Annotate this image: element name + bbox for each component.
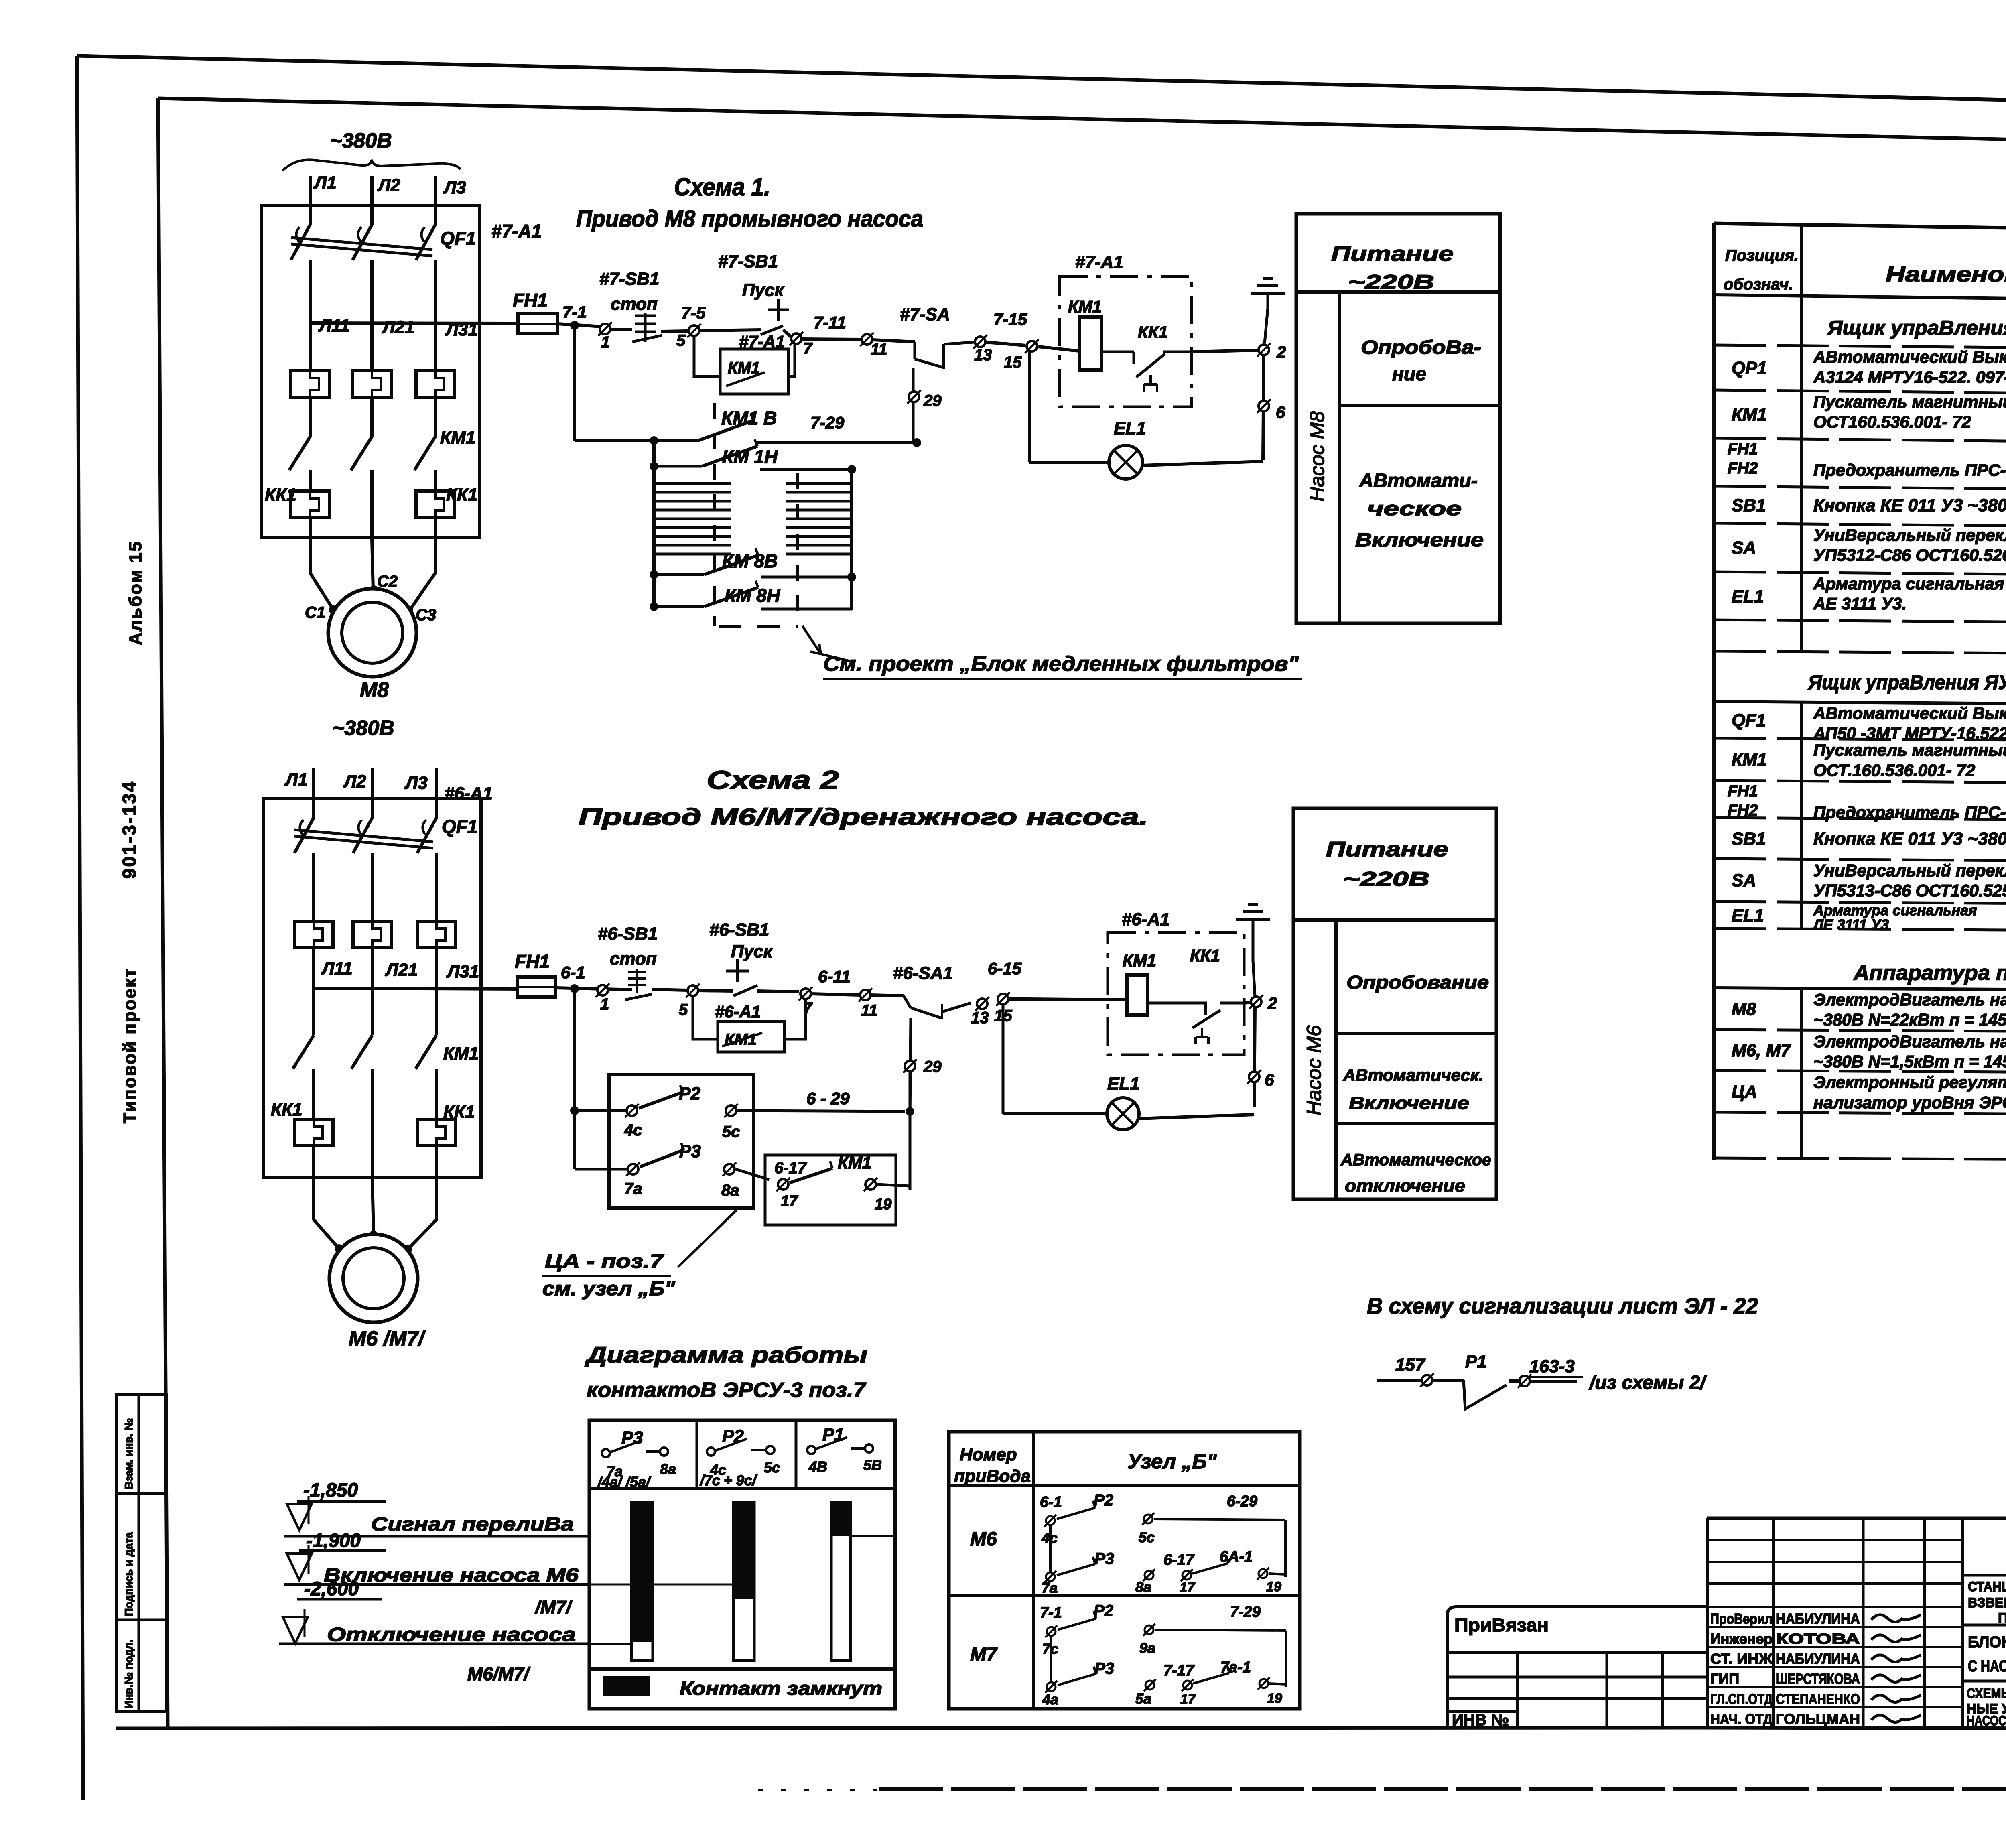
svg-text:Л2: Л2 <box>343 772 366 791</box>
svg-text:7: 7 <box>803 340 813 357</box>
svg-text:5с: 5с <box>1139 1529 1155 1545</box>
svg-text:6-1: 6-1 <box>1040 1494 1062 1511</box>
svg-text:С2: С2 <box>377 573 398 590</box>
svg-text:~220В: ~220В <box>1348 271 1434 293</box>
svg-text:1: 1 <box>601 333 610 351</box>
svg-text:8а: 8а <box>660 1461 676 1477</box>
svg-text:ГИП: ГИП <box>1710 1671 1739 1687</box>
svg-text:М7: М7 <box>970 1644 998 1665</box>
svg-text:5с: 5с <box>764 1459 780 1476</box>
svg-text:НАСОСОМ М8 И ДРЕНАЖНЫМ НАСОСОМ: НАСОСОМ М8 И ДРЕНАЖНЫМ НАСОСОМ М6(7) <box>1967 1713 2006 1728</box>
svg-text:6-29: 6-29 <box>1227 1493 1257 1510</box>
svg-text:КМ1: КМ1 <box>1732 750 1767 770</box>
svg-text:М6 /М7/: М6 /М7/ <box>349 1327 426 1350</box>
svg-text:4а: 4а <box>1042 1691 1058 1708</box>
svg-text:АВтоматический Выключатель: АВтоматический Выключатель <box>1813 347 2006 366</box>
svg-text:КМ 8В: КМ 8В <box>722 550 778 571</box>
svg-text:SВ1: SВ1 <box>1732 496 1766 515</box>
svg-text:~380В N=1,5кВт п = 1450об/м: ~380В N=1,5кВт п = 1450об/мин. <box>1813 1052 2006 1071</box>
svg-text:Аппаратура по месту: Аппаратура по месту <box>1853 961 2006 985</box>
svg-text:АВтоматический Выключатель: АВтоматический Выключатель <box>1813 704 2006 723</box>
svg-text:QР1: QР1 <box>1732 358 1767 378</box>
svg-text:Номер: Номер <box>960 1445 1017 1464</box>
svg-text:СТЕПАНЕНКО: СТЕПАНЕНКО <box>1776 1691 1860 1707</box>
svg-text:КМ1: КМ1 <box>728 359 760 377</box>
svg-text:~380В: ~380В <box>330 129 392 152</box>
svg-text:ПриВязан: ПриВязан <box>1454 1614 1549 1635</box>
svg-text:Подпись и дата: Подпись и дата <box>123 1532 135 1616</box>
svg-text:Питание: Питание <box>1331 242 1454 266</box>
svg-text:7-29: 7-29 <box>1230 1604 1261 1621</box>
svg-text:КОТОВА: КОТОВА <box>1776 1631 1860 1647</box>
svg-text:М6: М6 <box>970 1529 997 1550</box>
svg-text:7а: 7а <box>1042 1580 1058 1596</box>
svg-text:ЕL1: ЕL1 <box>1107 1074 1140 1094</box>
svg-text:См. проект „Блок медленных фил: См. проект „Блок медленных фильтров" <box>823 652 1299 676</box>
svg-text:КМ1: КМ1 <box>440 428 475 447</box>
svg-text:Л3: Л3 <box>404 773 428 793</box>
svg-text:ЦА - поз.7: ЦА - поз.7 <box>545 1251 664 1272</box>
svg-text:4В: 4В <box>808 1458 827 1475</box>
svg-text:Питание: Питание <box>1326 838 1448 861</box>
svg-text:ОСТ160.536.001- 72: ОСТ160.536.001- 72 <box>1813 412 1971 431</box>
svg-text:#7-SB1: #7-SB1 <box>599 269 659 289</box>
svg-text:ЕL1: ЕL1 <box>1114 418 1146 438</box>
svg-text:АЕ 3111 У3.: АЕ 3111 У3. <box>1813 594 1907 613</box>
svg-text:Предохранитель ПРС-6-П 6А: Предохранитель ПРС-6-П 6А <box>1813 461 2006 479</box>
svg-text:Пускатель магнитный ПАЕ-412: Пускатель магнитный ПАЕ-412 <box>1813 392 2006 411</box>
svg-text:13: 13 <box>971 1009 989 1027</box>
svg-text:Л21: Л21 <box>382 317 414 337</box>
svg-text:КМ 1Н: КМ 1Н <box>722 446 778 467</box>
svg-text:Л11: Л11 <box>318 316 350 335</box>
svg-text:7-15: 7-15 <box>993 310 1027 329</box>
svg-text:Ящик упраВления ЯУ6,ЯУ7(ЯУ5116: Ящик упраВления ЯУ6,ЯУ7(ЯУ5116-03А2-Л) <box>1807 671 2006 694</box>
svg-text:В схему сигнализации лист ЭЛ: В схему сигнализации лист ЭЛ - 22 <box>1367 1293 1758 1318</box>
svg-text:Схема 2: Схема 2 <box>707 766 839 794</box>
svg-text:Альбом 15: Альбом 15 <box>126 540 145 645</box>
svg-text:Р3: Р3 <box>1094 1550 1114 1568</box>
svg-text:Электронный регулятор- сиг-: Электронный регулятор- сиг- <box>1813 1073 2006 1092</box>
svg-text:6-11: 6-11 <box>818 967 851 986</box>
svg-text:М8: М8 <box>1732 999 1756 1019</box>
svg-text:5: 5 <box>676 332 686 349</box>
svg-text:~380В: ~380В <box>332 717 394 740</box>
svg-text:6 - 29: 6 - 29 <box>806 1089 850 1108</box>
svg-text:11: 11 <box>871 341 887 358</box>
svg-text:ЭлектродВигатель насоса А2-71-: ЭлектродВигатель насоса А2-71-4 <box>1813 990 2006 1009</box>
svg-text:5с: 5с <box>722 1123 740 1141</box>
svg-text:Р1: Р1 <box>1465 1352 1487 1371</box>
svg-text:НАБИУЛИНА: НАБИУЛИНА <box>1776 1610 1860 1627</box>
svg-text:Насос М8: Насос М8 <box>1306 411 1328 502</box>
svg-text:#6-SB1: #6-SB1 <box>709 920 769 940</box>
svg-text:7-29: 7-29 <box>810 413 845 432</box>
svg-text:А3124 МРТУ16-522. 097-7: А3124 МРТУ16-522. 097-73 <box>1813 368 2006 386</box>
svg-text:Включение насоса М6: Включение насоса М6 <box>324 1565 579 1586</box>
svg-text:М6, М7: М6, М7 <box>1732 1041 1791 1060</box>
svg-text:-2,600: -2,600 <box>304 1578 359 1600</box>
svg-text:Насос М6: Насос М6 <box>1303 1025 1325 1115</box>
svg-text:СТ. ИНЖ: СТ. ИНЖ <box>1710 1651 1773 1667</box>
svg-text:С3: С3 <box>416 606 436 624</box>
svg-text:ЕL1: ЕL1 <box>1732 906 1764 925</box>
svg-text:15: 15 <box>1004 353 1022 371</box>
svg-text:#6-А1: #6-А1 <box>445 784 493 803</box>
svg-text:17: 17 <box>781 1193 798 1210</box>
svg-text:Узел „Б": Узел „Б" <box>1127 1450 1217 1473</box>
svg-text:5В: 5В <box>863 1457 882 1473</box>
svg-text:АВтоматическ.: АВтоматическ. <box>1343 1066 1484 1084</box>
svg-text:7-1: 7-1 <box>1040 1604 1062 1621</box>
svg-text:Типовой проект: Типовой проект <box>120 967 140 1123</box>
svg-text:~380В N=22кВт п = 1450об/мин.: ~380В N=22кВт п = 1450об/мин. <box>1813 1010 2006 1029</box>
svg-text:Ящик упраВления ЯУ8(ЯУ5113-: Ящик упраВления ЯУ8(ЯУ5113-1362Г) <box>1827 317 2006 339</box>
svg-text:КК1: КК1 <box>446 485 478 505</box>
svg-text:стоп: стоп <box>611 294 658 314</box>
svg-text:нализатор уроВня ЭРСУ-3: нализатор уроВня ЭРСУ-3 <box>1813 1093 2006 1112</box>
svg-text:QF1: QF1 <box>442 816 477 837</box>
svg-text:17: 17 <box>1180 1580 1196 1595</box>
svg-text:#6-SА1: #6-SА1 <box>893 963 953 983</box>
svg-text:5: 5 <box>679 1001 688 1019</box>
svg-text:ЭлектродВигатель насоса АОЛ-2-: ЭлектродВигатель насоса АОЛ-2-22-4 <box>1813 1032 2006 1051</box>
svg-text:-1,850: -1,850 <box>303 1480 358 1501</box>
svg-text:6: 6 <box>1265 1070 1274 1089</box>
svg-text:19: 19 <box>1266 1579 1281 1594</box>
svg-text:901-3-134: 901-3-134 <box>119 780 140 879</box>
svg-text:Инв.№ подл.: Инв.№ подл. <box>123 1639 135 1708</box>
svg-text:ГОЛЬЦМАН: ГОЛЬЦМАН <box>1776 1711 1860 1727</box>
svg-text:~220В: ~220В <box>1343 868 1429 890</box>
svg-text:6-15: 6-15 <box>988 959 1022 978</box>
svg-text:Л2: Л2 <box>377 175 400 195</box>
svg-text:#7-А1: #7-А1 <box>1075 252 1123 272</box>
svg-text:8а: 8а <box>1135 1579 1151 1595</box>
svg-text:ПРОИЗВОДИТЕЛЬНОСТЬЮ 3,2 ТЫС.: ПРОИЗВОДИТЕЛЬНОСТЬЮ 3,2 ТЫС. М³/СУТКИ <box>1998 1610 2006 1626</box>
svg-text:обознач.: обознач. <box>1724 276 1793 293</box>
svg-text:ОпробоВа-: ОпробоВа- <box>1361 337 1481 358</box>
svg-text:Арматура сигнальная: Арматура сигнальная <box>1813 574 2004 593</box>
svg-text:С1: С1 <box>305 604 325 621</box>
svg-text:ЛЕ 3111 У3: ЛЕ 3111 У3 <box>1812 916 1889 933</box>
svg-text:7-11: 7-11 <box>814 313 846 332</box>
svg-text:SВ1: SВ1 <box>1732 829 1766 849</box>
svg-text:Р2: Р2 <box>679 1084 700 1103</box>
svg-text:КМ1: КМ1 <box>1068 297 1102 316</box>
svg-text:Диаграмма работы: Диаграмма работы <box>585 1342 867 1367</box>
svg-text:ПроВерил: ПроВерил <box>1710 1610 1773 1627</box>
svg-text:АВтомати-: АВтомати- <box>1359 470 1478 491</box>
svg-text:Р3: Р3 <box>679 1141 701 1161</box>
svg-text:7-5: 7-5 <box>681 303 706 322</box>
svg-text:Л21: Л21 <box>385 960 418 980</box>
svg-text:см. узел „Б": см. узел „Б" <box>542 1278 675 1300</box>
svg-text:/7с ÷ 9с/: /7с ÷ 9с/ <box>699 1472 758 1489</box>
svg-text:#6-А1: #6-А1 <box>1122 910 1170 929</box>
svg-text:Пускатель магнитный ПМЕ-111: Пускатель магнитный ПМЕ-111 <box>1813 741 2006 760</box>
svg-text:#7-SA: #7-SA <box>900 305 950 324</box>
svg-text:Арматура сигнальная: Арматура сигнальная <box>1813 902 1977 918</box>
svg-text:7-17: 7-17 <box>1163 1662 1195 1679</box>
svg-text:9а: 9а <box>1139 1640 1155 1656</box>
svg-text:Л3: Л3 <box>443 178 466 197</box>
svg-text:29: 29 <box>923 392 942 410</box>
svg-text:КМ1: КМ1 <box>443 1044 479 1063</box>
svg-text:#7-SB1: #7-SB1 <box>718 252 778 271</box>
svg-text:4с: 4с <box>624 1121 642 1139</box>
svg-text:КМ1 В: КМ1 В <box>721 408 777 428</box>
svg-text:/М7/: /М7/ <box>534 1597 573 1618</box>
svg-text:УниВерсальный переключатель: УниВерсальный переключатель <box>1813 861 2006 880</box>
svg-text:Позиция.: Позиция. <box>1725 247 1799 264</box>
svg-text:Включение: Включение <box>1355 530 1484 551</box>
svg-text:ОСТ.160.536.001- 72: ОСТ.160.536.001- 72 <box>1813 761 1975 780</box>
svg-text:стоп: стоп <box>610 949 657 969</box>
svg-text:контактоВ ЭРСУ-3 поз.7: контактоВ ЭРСУ-3 поз.7 <box>587 1379 866 1402</box>
svg-text:Л1: Л1 <box>284 770 308 790</box>
svg-text:КМ1: КМ1 <box>1732 405 1767 424</box>
svg-text:157: 157 <box>1395 1355 1426 1375</box>
svg-text:FН1: FН1 <box>1728 440 1758 458</box>
svg-text:Л31: Л31 <box>446 962 479 981</box>
svg-text:СТАНЦИЯ ОЧИСТКИ ПОВЕРХНОСТНЫХ: СТАНЦИЯ ОЧИСТКИ ПОВЕРХНОСТНЫХ ИСТОЧНИКОВ… <box>1968 1579 2006 1594</box>
svg-text:#7-А1: #7-А1 <box>491 221 542 242</box>
svg-text:КМ1: КМ1 <box>838 1153 871 1172</box>
svg-text:КК1: КК1 <box>271 1100 303 1119</box>
svg-text:Предохранитель ПРС-6-П- 6А: Предохранитель ПРС-6-П- 6А <box>1813 803 2006 822</box>
svg-text:Пуск: Пуск <box>731 942 774 961</box>
svg-text:Кнопка КЕ 011 У3 ~380В: Кнопка КЕ 011 У3 ~380В <box>1813 829 2006 849</box>
svg-text:М8: М8 <box>360 678 389 702</box>
svg-text:Взам. инв. №: Взам. инв. № <box>123 1418 135 1489</box>
svg-text:НАБИУЛИНА: НАБИУЛИНА <box>1776 1651 1860 1667</box>
svg-text:СХЕМЫ ЭЛЕКТРИЧЕСКИЕ ПРИНЦИПИАЛ: СХЕМЫ ЭЛЕКТРИЧЕСКИЕ ПРИНЦИПИАЛЬ- <box>1967 1686 2006 1701</box>
svg-text:ЦА: ЦА <box>1732 1082 1757 1102</box>
svg-text:Отключение насоса: Отключение насоса <box>327 1624 576 1645</box>
svg-text:163-3: 163-3 <box>1529 1357 1575 1376</box>
svg-text:#6-SB1: #6-SB1 <box>598 924 658 944</box>
svg-text:ВЗВЕШЕННЫХ ВЕЩЕСТВ ДО 700 МГ/Л: ВЗВЕШЕННЫХ ВЕЩЕСТВ ДО 700 МГ/Л С МЕДЛЕНН… <box>1968 1595 2006 1610</box>
svg-text:6-17: 6-17 <box>774 1159 807 1177</box>
svg-text:КМ1: КМ1 <box>1123 951 1156 970</box>
svg-text:5а: 5а <box>1135 1690 1151 1707</box>
svg-text:29: 29 <box>923 1058 942 1076</box>
svg-text:ЕL1: ЕL1 <box>1732 587 1764 606</box>
svg-text:FН1: FН1 <box>515 951 550 972</box>
svg-text:КК1: КК1 <box>1190 946 1220 965</box>
svg-text:М6/М7/: М6/М7/ <box>467 1663 531 1684</box>
svg-text:НаименоВание: НаименоВание <box>1886 262 2006 286</box>
svg-text:УП5312-С86 ОСТ160.526.001-72: УП5312-С86 ОСТ160.526.001-72 <box>1813 546 2006 565</box>
svg-text:приВода: приВода <box>954 1466 1031 1486</box>
svg-text:2: 2 <box>1267 994 1277 1013</box>
svg-text:Контакт замкнут: Контакт замкнут <box>680 1678 882 1699</box>
svg-text:6-1: 6-1 <box>561 963 585 982</box>
svg-text:УП5313-С86 ОСТ160.525.001-72: УП5313-С86 ОСТ160.525.001-72 <box>1813 881 2006 900</box>
svg-text:19: 19 <box>1267 1691 1282 1706</box>
svg-text:1: 1 <box>600 995 609 1013</box>
svg-text:#6-А1: #6-А1 <box>715 1002 761 1021</box>
svg-text:Схема 1.: Схема 1. <box>674 173 770 201</box>
svg-text:SА: SА <box>1732 871 1756 890</box>
svg-text:7а: 7а <box>624 1180 642 1198</box>
svg-text:Л1: Л1 <box>313 173 337 193</box>
svg-text:FН2: FН2 <box>1728 802 1758 819</box>
svg-text:/из схемы 2/: /из схемы 2/ <box>1589 1372 1707 1393</box>
svg-text:6А-1: 6А-1 <box>1220 1548 1253 1565</box>
svg-text:Привод М8 промывного насоса: Привод М8 промывного насоса <box>576 206 923 232</box>
svg-text:17: 17 <box>1180 1692 1196 1707</box>
svg-text:6: 6 <box>1276 403 1285 422</box>
svg-text:АП50 -3МТ МРТУ-16.522.007-: АП50 -3МТ МРТУ-16.522.007- 73 <box>1813 724 2006 743</box>
svg-text:КК1: КК1 <box>1138 323 1168 341</box>
svg-text:ИНВ №: ИНВ № <box>1452 1711 1509 1729</box>
svg-text:FН1: FН1 <box>1728 782 1758 800</box>
svg-text:УниВерсальный переключатель: УниВерсальный переключатель <box>1813 526 2006 544</box>
svg-text:FН1: FН1 <box>513 290 548 311</box>
svg-text:Кнопка КЕ 011 У3 ~38: Кнопка КЕ 011 У3 ~380В <box>1813 496 2006 515</box>
svg-text:-1,900: -1,900 <box>306 1530 361 1552</box>
svg-text:7-1: 7-1 <box>562 303 587 321</box>
svg-text:АВтоматическое: АВтоматическое <box>1340 1151 1491 1169</box>
svg-text:Пуск: Пуск <box>742 280 785 300</box>
svg-text:6-17: 6-17 <box>1163 1552 1195 1568</box>
svg-text:11: 11 <box>861 1002 878 1019</box>
svg-text:QF1: QF1 <box>1732 711 1766 730</box>
svg-text:Опробование: Опробование <box>1346 972 1489 993</box>
svg-text:С НАСОСНОЙ СТАНЦИЕЙ II: С НАСОСНОЙ СТАНЦИЕЙ II <box>1968 1657 2006 1675</box>
svg-text:FН2: FН2 <box>1728 459 1758 477</box>
svg-text:ГЛ.СП.ОТД: ГЛ.СП.ОТД <box>1710 1691 1773 1707</box>
svg-text:отключение: отключение <box>1345 1176 1465 1196</box>
svg-text:Привод М6/М7/дренажного насоса: Привод М6/М7/дренажного насоса. <box>579 804 1148 830</box>
svg-text:Л11: Л11 <box>321 959 353 978</box>
svg-text:ШЕРСТЯКОВА: ШЕРСТЯКОВА <box>1776 1671 1860 1687</box>
svg-text:Р2: Р2 <box>1094 1491 1113 1509</box>
svg-text:Инженер: Инженер <box>1710 1631 1773 1647</box>
svg-text:13: 13 <box>974 346 992 364</box>
svg-text:ческое: ческое <box>1367 498 1462 520</box>
svg-text:НАЧ. ОТД: НАЧ. ОТД <box>1710 1711 1773 1727</box>
svg-text:Р3: Р3 <box>1094 1660 1114 1677</box>
svg-text:8а: 8а <box>721 1182 739 1199</box>
svg-text:QF1: QF1 <box>440 228 476 249</box>
svg-text:/4а/ /5а/: /4а/ /5а/ <box>597 1474 652 1490</box>
svg-text:19: 19 <box>875 1196 891 1213</box>
svg-text:2: 2 <box>1276 343 1286 361</box>
svg-text:Включение: Включение <box>1349 1093 1469 1113</box>
svg-text:Сигнал перелиВа: Сигнал перелиВа <box>371 1514 574 1535</box>
svg-text:ние: ние <box>1392 364 1426 385</box>
svg-text:КК1: КК1 <box>265 485 296 505</box>
svg-text:SА: SА <box>1732 538 1756 558</box>
svg-text:7: 7 <box>803 999 813 1017</box>
svg-text:БЛОК СЛУЖЕБНЫХ ПОМЕЩЕНИЙ: БЛОК СЛУЖЕБНЫХ ПОМЕЩЕНИЙ <box>1968 1633 2006 1651</box>
